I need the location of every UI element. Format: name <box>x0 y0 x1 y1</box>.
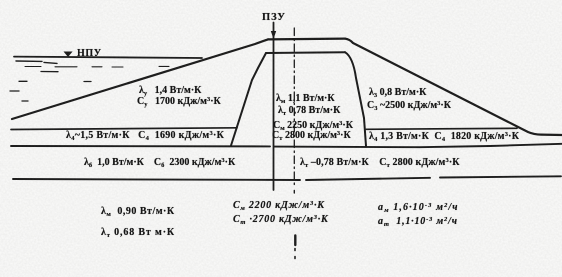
label ПЗУ (crest level) <box>262 13 286 24</box>
dash-dot axis: dot below ground <box>293 191 295 194</box>
water hatching dash row 5 <box>22 100 28 102</box>
dash-dot dam axis <box>293 28 295 186</box>
water hatching dash row 4 <box>10 90 19 92</box>
dam upstream slope <box>12 39 268 119</box>
core right side <box>345 52 366 146</box>
ground line <box>13 176 561 180</box>
water hatching dash row 2 <box>41 71 58 73</box>
layer 2 right label <box>300 158 460 168</box>
dash-dot axis: trailing dots <box>294 249 296 259</box>
dam downstream slope <box>345 39 562 135</box>
downstream shell labels <box>369 88 426 98</box>
core labels <box>276 94 335 104</box>
label НПУ (normal water level) <box>77 49 102 59</box>
core top edge <box>266 51 345 54</box>
water hatching dashes <box>25 65 169 68</box>
layer 2 left label <box>84 158 235 168</box>
core left side <box>231 53 266 146</box>
layer band 1 right label <box>369 132 519 142</box>
water hatching dash row 3 <box>19 80 91 82</box>
bottom right properties <box>378 203 459 213</box>
bottom center properties <box>233 201 325 211</box>
layer band 1 left label <box>66 131 224 141</box>
layer line 2 <box>11 144 562 147</box>
water surface secondary rough line <box>16 61 57 63</box>
water level marker triangle <box>64 52 73 58</box>
dam crest <box>268 37 345 40</box>
arrowhead of ПЗУ pointer <box>271 31 276 39</box>
vertical section axis (solid) <box>273 23 275 191</box>
layer line 1 right segment <box>366 128 517 129</box>
dash-dot axis: bold dash segment (looks like 1) <box>294 236 296 246</box>
layer line 1 left segment <box>11 128 237 130</box>
bottom left properties <box>101 207 175 217</box>
water surface line (НПУ level) <box>14 57 202 58</box>
upstream shell labels <box>139 86 201 96</box>
